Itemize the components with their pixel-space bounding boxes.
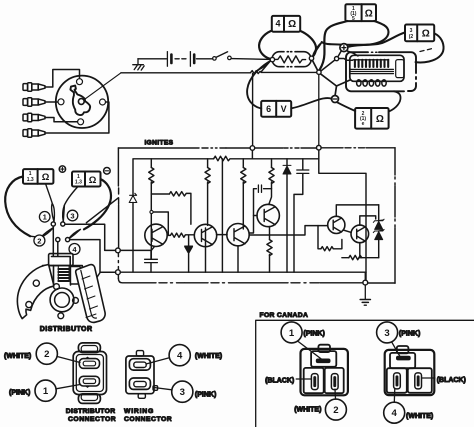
svg-text:CONNECTOR: CONNECTOR (124, 416, 172, 423)
svg-text:V: V (281, 104, 287, 114)
svg-text:(BLACK): (BLACK) (265, 377, 294, 384)
svg-text:FOR CANADA: FOR CANADA (260, 312, 309, 319)
svg-text:3: 3 (384, 328, 389, 339)
svg-text:(2: (2 (409, 34, 414, 40)
svg-text:(WHITE): (WHITE) (195, 353, 222, 360)
svg-text:4: 4 (177, 351, 183, 362)
svg-text:(WHITE): (WHITE) (294, 407, 321, 414)
svg-text:4: 4 (275, 18, 280, 28)
svg-text:DISTRIBUTOR: DISTRIBUTOR (66, 408, 116, 415)
svg-text:6: 6 (266, 104, 271, 114)
svg-text:DISTRIBUTOR: DISTRIBUTOR (40, 326, 93, 333)
svg-text:(PINK): (PINK) (303, 330, 324, 337)
svg-text:(BLACK): (BLACK) (437, 377, 466, 384)
svg-text:(PINK): (PINK) (9, 390, 30, 397)
svg-text:(PINK): (PINK) (399, 331, 420, 338)
svg-text:Ω: Ω (422, 29, 430, 40)
svg-text:2: 2 (44, 349, 49, 360)
svg-text:Ω: Ω (288, 19, 296, 30)
svg-text:1.3: 1.3 (27, 177, 34, 183)
svg-text:e: e (362, 121, 365, 127)
svg-text:2: 2 (37, 236, 41, 245)
svg-text:Ω: Ω (376, 114, 384, 125)
svg-text:3: 3 (70, 211, 74, 220)
svg-text:(WHITE): (WHITE) (4, 353, 31, 360)
svg-text:2: 2 (333, 405, 338, 416)
svg-text:WIRING: WIRING (124, 408, 154, 415)
svg-text:(PINK): (PINK) (195, 391, 216, 398)
svg-text:(WHITE): (WHITE) (406, 413, 433, 420)
svg-text:1: 1 (43, 386, 49, 397)
svg-text:Ω: Ω (365, 9, 373, 20)
svg-text:1.3: 1.3 (75, 180, 82, 186)
svg-text:CONNECTOR: CONNECTOR (68, 416, 116, 423)
svg-text:Ω: Ω (89, 175, 97, 186)
svg-text:4: 4 (392, 408, 398, 419)
svg-text:Ω: Ω (42, 172, 50, 183)
svg-text:5: 5 (352, 16, 355, 22)
svg-text:IGNITES: IGNITES (145, 140, 174, 147)
svg-text:1: 1 (289, 328, 295, 339)
svg-text:3: 3 (180, 387, 185, 398)
